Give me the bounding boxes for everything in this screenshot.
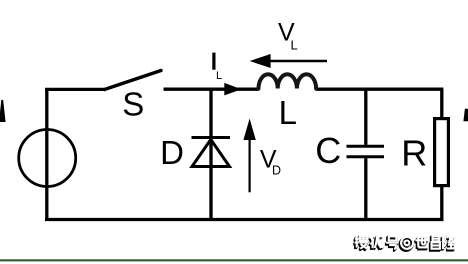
svg-text:R: R <box>401 133 427 174</box>
svg-text:D: D <box>160 134 184 171</box>
svg-text:D: D <box>272 163 281 177</box>
svg-text:L: L <box>291 38 298 53</box>
svg-text:L: L <box>279 94 297 131</box>
svg-text:S: S <box>122 86 144 123</box>
svg-text:L: L <box>216 70 222 82</box>
svg-text:C: C <box>315 130 341 171</box>
